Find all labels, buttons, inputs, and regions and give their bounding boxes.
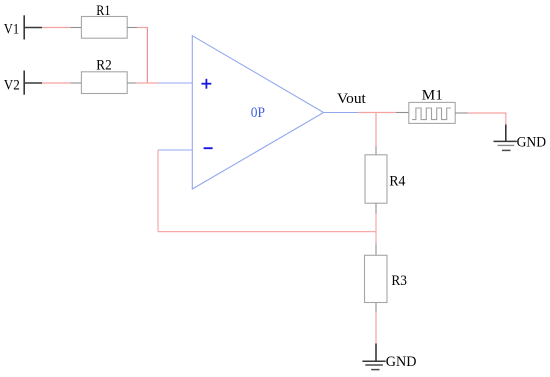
svg-text:0P: 0P	[251, 105, 265, 121]
svg-text:V1: V1	[4, 22, 19, 38]
svg-text:R3: R3	[391, 273, 407, 289]
svg-text:GND: GND	[517, 135, 547, 151]
svg-text:R4: R4	[389, 173, 405, 189]
svg-text:Vout: Vout	[337, 91, 367, 107]
svg-text:GND: GND	[386, 354, 417, 370]
svg-text:V2: V2	[4, 77, 20, 93]
svg-text:M1: M1	[422, 88, 443, 104]
svg-text:R1: R1	[96, 3, 110, 19]
svg-text:R2: R2	[96, 58, 111, 74]
